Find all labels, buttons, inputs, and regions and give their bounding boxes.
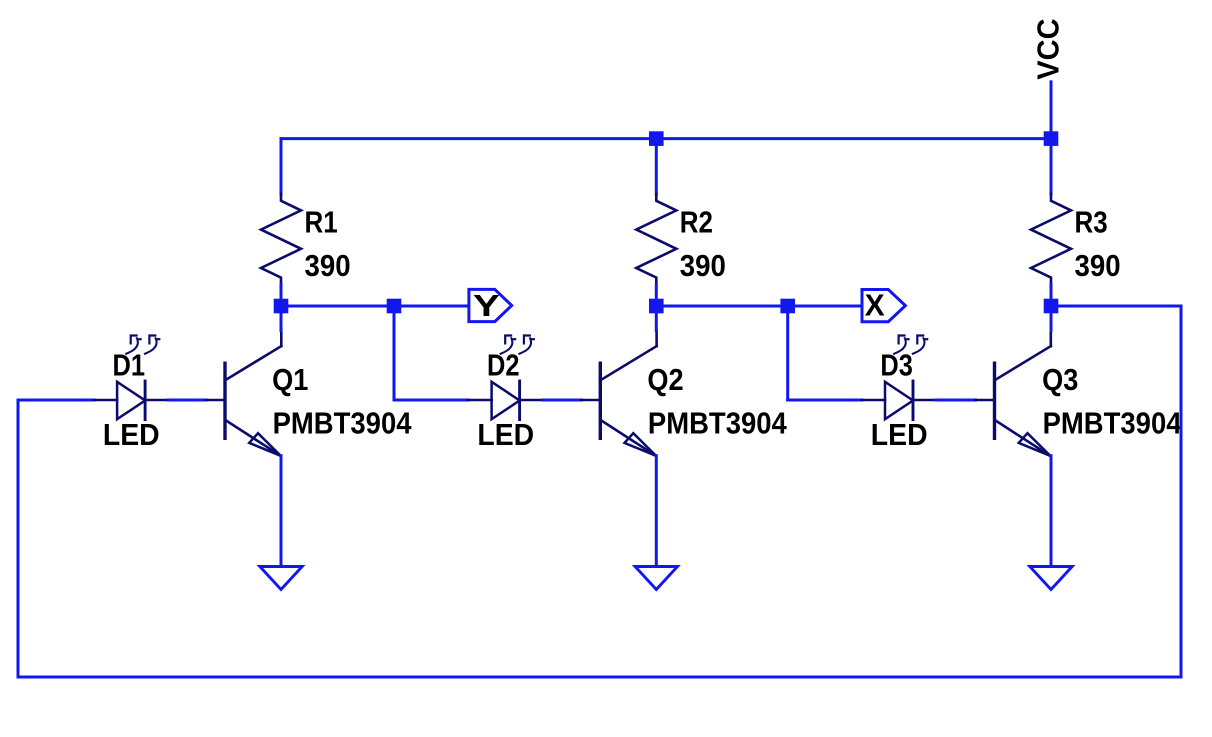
transistor Q1 [206, 331, 281, 456]
net flag X [862, 288, 905, 323]
svg-text:D3: D3 [880, 347, 913, 382]
wire: tap down to LED D3 row [786, 306, 789, 400]
ground under Q3 [1030, 567, 1072, 590]
LED D2 [468, 336, 542, 420]
svg-text:VCC: VCC [1031, 18, 1066, 79]
svg-text:R3: R3 [1075, 205, 1108, 240]
wire: Q1 collector node to Y flag [281, 305, 469, 308]
junction on rail above R3 / VCC [1044, 131, 1059, 146]
svg-text:390: 390 [680, 248, 726, 283]
label D1 [113, 347, 146, 382]
wire: Q3 emitter down to ground [1050, 456, 1053, 567]
wire: R3 bottom to output node [1050, 285, 1053, 307]
svg-text:LED: LED [477, 417, 534, 452]
ground under Q1 [260, 567, 302, 590]
label Q3 [1042, 362, 1078, 397]
ground under Q2 [635, 567, 677, 590]
svg-text:PMBT3904: PMBT3904 [273, 406, 413, 441]
wire: across to D3 anode [788, 399, 862, 402]
LED D3 [862, 336, 936, 420]
node VCC label [1031, 18, 1066, 79]
resistor R3 [1031, 193, 1071, 286]
wire: left side up to D1 [17, 400, 20, 677]
wire: rail to R3 top [1050, 139, 1053, 194]
wire: Q2 emitter down to ground [655, 456, 658, 567]
resistor R2 [636, 193, 676, 286]
svg-text:Q2: Q2 [647, 362, 683, 397]
resistor R1 [261, 193, 301, 286]
value LED (D3) [871, 417, 928, 452]
junction: collector node of Q3 [1044, 299, 1059, 314]
wire: Q3 collector node to right edge [1051, 305, 1181, 308]
svg-text:R2: R2 [680, 205, 713, 240]
wire: rail to R2 top [655, 139, 658, 194]
wire: D2 cathode to Q2 base [543, 399, 582, 402]
value 390 (R3) [1075, 248, 1121, 283]
label D2 [487, 347, 520, 382]
value 390 (R2) [680, 248, 726, 283]
junction: collector node of Q2 [649, 299, 664, 314]
junction: tap to D2 [387, 299, 402, 314]
wire: VCC stub up from rail [1050, 82, 1053, 139]
wire: R2 bottom to output node [655, 285, 658, 307]
label D3 [880, 347, 913, 382]
junction on rail above R2 [649, 131, 664, 146]
junction: tap to D3 [780, 299, 795, 314]
wire: right side down [1180, 306, 1183, 677]
svg-text:Q1: Q1 [272, 362, 308, 397]
wire: Q1 emitter down to ground [280, 456, 283, 567]
svg-text:LED: LED [103, 417, 160, 452]
wire: top VCC rail [281, 137, 1051, 140]
svg-text:Q3: Q3 [1042, 362, 1078, 397]
svg-text:X: X [865, 288, 885, 323]
wire: bottom feedback run [18, 676, 1181, 679]
svg-text:D1: D1 [113, 347, 146, 382]
label R1 [305, 205, 338, 240]
label R2 [680, 205, 713, 240]
wire: rail to R1 top [280, 139, 283, 194]
svg-text:R1: R1 [305, 205, 338, 240]
value LED (D1) [103, 417, 160, 452]
svg-text:Y: Y [473, 288, 500, 323]
value 390 (R1) [305, 248, 351, 283]
svg-text:LED: LED [871, 417, 928, 452]
wire: feedback into stage 1 (left) [18, 399, 94, 402]
transistor Q2 [581, 331, 656, 456]
junction: collector node of Q1 [274, 299, 289, 314]
wire: Q2 collector to output node [655, 306, 658, 331]
svg-text:PMBT3904: PMBT3904 [648, 406, 788, 441]
wire: Q1 collector to output node [280, 306, 283, 331]
value PMBT3904 (Q3) [1043, 406, 1183, 441]
transistor Q3 [976, 331, 1051, 456]
wire: Q3 collector to output node [1050, 306, 1053, 331]
net flag Y [469, 288, 512, 323]
wire: Q2 collector node to X flag [656, 305, 862, 308]
svg-text:390: 390 [305, 248, 351, 283]
wire: across to D2 anode [394, 399, 468, 402]
value LED (D2) [477, 417, 534, 452]
value PMBT3904 (Q2) [648, 406, 788, 441]
label Q1 [272, 362, 308, 397]
wire: D1 cathode to Q1 base [168, 399, 206, 402]
label Q2 [647, 362, 683, 397]
svg-text:D2: D2 [487, 347, 520, 382]
wire: R1 bottom to output node [280, 285, 283, 307]
wire: D3 cathode to Q3 base [936, 399, 976, 402]
LED D1 [94, 336, 168, 420]
svg-text:PMBT3904: PMBT3904 [1043, 406, 1183, 441]
wire: tap down to LED D2 row [393, 306, 396, 400]
value PMBT3904 (Q1) [273, 406, 413, 441]
label R3 [1075, 205, 1108, 240]
svg-text:390: 390 [1075, 248, 1121, 283]
